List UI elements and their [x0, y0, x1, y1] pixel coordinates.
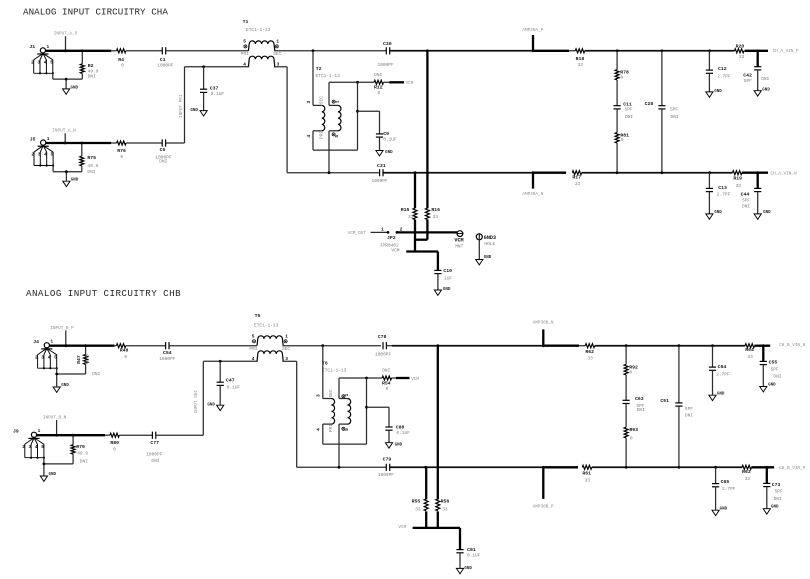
- resistor R62: [585, 344, 594, 348]
- connector J4: [33, 339, 58, 370]
- resistor R12: [374, 80, 383, 84]
- svg-text:R17: R17: [572, 175, 581, 181]
- wire T5 pin4: [203, 360, 257, 362]
- svg-text:R79: R79: [76, 444, 85, 450]
- svg-text:DNI: DNI: [151, 458, 159, 464]
- wire J4 ground tap: [56, 374, 58, 387]
- svg-text:SEC: SEC: [282, 346, 290, 352]
- resistor R76: [117, 141, 126, 145]
- svg-text:R62: R62: [585, 349, 594, 355]
- wire R63-out: [751, 466, 774, 468]
- svg-text:2.7PF: 2.7PF: [717, 73, 731, 79]
- svg-text:4: 4: [44, 59, 47, 65]
- capacitor C30: [385, 47, 387, 54]
- wire bus A N: [287, 172, 380, 174]
- capacitor C28: [661, 51, 663, 106]
- ground C73: [763, 506, 779, 514]
- resistor R4: [117, 49, 126, 53]
- svg-text:DNI: DNI: [761, 76, 769, 82]
- wire J5-R76: [46, 142, 111, 144]
- svg-text:ANALOG INPUT CIRCUITRY CHA: ANALOG INPUT CIRCUITRY CHA: [23, 7, 168, 18]
- svg-text:INPUT_B_N: INPUT_B_N: [43, 415, 67, 420]
- svg-text:1UF: 1UF: [444, 275, 452, 281]
- svg-text:R47: R47: [76, 355, 82, 364]
- svg-text:1: 1: [285, 334, 288, 340]
- ground C65: [712, 507, 728, 515]
- wire J5 shield rail: [52, 166, 54, 172]
- svg-text:R54: R54: [382, 380, 391, 386]
- resistor R48: [116, 344, 125, 348]
- jumper JP2: [387, 231, 390, 234]
- svg-text:4: 4: [44, 152, 47, 158]
- svg-text:C12: C12: [718, 66, 727, 72]
- capacitor C44: [757, 173, 759, 189]
- svg-text:0: 0: [386, 386, 389, 392]
- wire R80-C77: [119, 434, 152, 436]
- resistor R17: [572, 171, 581, 175]
- svg-text:1: 1: [50, 339, 53, 345]
- svg-text:33: 33: [587, 356, 593, 362]
- svg-text:0: 0: [378, 90, 381, 96]
- svg-text:3: 3: [38, 152, 41, 158]
- svg-text:3: 3: [316, 394, 322, 397]
- wire bus A bold seg: [533, 172, 566, 174]
- svg-text:SEC: SEC: [273, 51, 281, 57]
- svg-text:VCM: VCM: [411, 377, 419, 382]
- ground C64: [709, 392, 725, 400]
- svg-text:5: 5: [51, 152, 54, 158]
- capacitor C47: [219, 360, 222, 363]
- svg-text:C5: C5: [160, 147, 166, 153]
- svg-text:1000PF: 1000PF: [159, 356, 176, 362]
- svg-text:C42: C42: [743, 72, 752, 78]
- capacitor C65: [715, 467, 717, 483]
- svg-text:R12: R12: [374, 85, 383, 91]
- svg-text:R4: R4: [118, 57, 124, 63]
- wire J4-R48: [49, 345, 114, 347]
- svg-text:C78: C78: [378, 334, 387, 340]
- svg-text:J5: J5: [30, 136, 36, 142]
- svg-text:GND: GND: [763, 211, 771, 215]
- svg-text:2.7PF: 2.7PF: [716, 371, 730, 377]
- svg-text:4: 4: [48, 354, 51, 360]
- ground C81: [456, 567, 472, 574]
- svg-text:0: 0: [621, 74, 624, 80]
- wire J5 ground tap: [65, 172, 67, 182]
- svg-text:C64: C64: [718, 364, 727, 370]
- svg-text:C51: C51: [660, 398, 669, 404]
- wire bus B bold seg: [543, 466, 578, 468]
- connector J1: [29, 44, 54, 75]
- svg-text:1000PF: 1000PF: [146, 451, 163, 457]
- svg-text:R76: R76: [117, 148, 126, 154]
- resistor R61: [582, 465, 591, 469]
- svg-text:GND: GND: [762, 88, 770, 92]
- svg-text:DNI: DNI: [80, 459, 88, 465]
- svg-text:5: 5: [243, 39, 246, 45]
- svg-text:C31: C31: [377, 163, 386, 169]
- svg-text:C54: C54: [163, 350, 172, 356]
- svg-text:R48: R48: [120, 347, 129, 353]
- wire C77-T5pin4: [156, 434, 204, 436]
- svg-text:1000PF: 1000PF: [372, 178, 389, 184]
- ground C47: [207, 404, 223, 411]
- svg-text:J1: J1: [29, 44, 35, 50]
- wire AMP-R18: [533, 50, 569, 52]
- svg-text:33: 33: [585, 477, 591, 483]
- svg-text:33: 33: [408, 214, 414, 220]
- ground C55: [760, 384, 776, 392]
- wire C10 feed: [406, 250, 438, 252]
- ground C44: [754, 211, 771, 219]
- svg-text:C65: C65: [721, 479, 730, 485]
- capacitor C77: [151, 432, 153, 439]
- svg-text:INPUT_B_P: INPUT_B_P: [50, 326, 74, 331]
- svg-text:CH_A_VIN_P: CH_A_VIN_P: [773, 49, 799, 54]
- svg-text:R2: R2: [88, 63, 94, 69]
- svg-text:DNI: DNI: [382, 368, 390, 374]
- svg-text:ANALOG INPUT CIRCUITRY CHB: ANALOG INPUT CIRCUITRY CHB: [26, 288, 181, 299]
- svg-text:C9: C9: [383, 131, 389, 137]
- svg-text:1: 1: [47, 44, 50, 50]
- node VCM (R12): [384, 81, 390, 83]
- svg-text:C73: C73: [772, 482, 781, 488]
- svg-text:1: 1: [47, 136, 50, 142]
- svg-text:5PF: 5PF: [775, 489, 783, 495]
- svg-text:DNI: DNI: [685, 413, 693, 419]
- svg-text:49.9: 49.9: [77, 451, 88, 457]
- ground J1: [63, 86, 79, 94]
- svg-text:5PF: 5PF: [744, 78, 752, 84]
- transformer T1: [241, 19, 282, 67]
- svg-text:AMP30B_N: AMP30B_N: [533, 320, 554, 325]
- wire T2 top line: [329, 81, 374, 83]
- capacitor C11: [614, 105, 621, 107]
- svg-text:JP2: JP2: [387, 235, 396, 241]
- svg-text:DNI: DNI: [774, 496, 782, 502]
- ground C12: [706, 90, 722, 97]
- wire bus B P: [297, 466, 387, 468]
- svg-text:GND: GND: [385, 151, 393, 155]
- wire R48-C54: [126, 345, 166, 347]
- svg-text:R55: R55: [412, 499, 421, 505]
- svg-text:0: 0: [120, 154, 123, 160]
- transformer T6: [316, 346, 367, 468]
- svg-text:AMP30A_N: AMP30A_N: [522, 192, 543, 197]
- svg-text:VCM: VCM: [454, 238, 463, 244]
- capacitor C12: [708, 51, 710, 70]
- svg-text:C37: C37: [210, 86, 219, 92]
- wire C54-T5: [169, 345, 257, 347]
- svg-text:C1: C1: [160, 57, 166, 63]
- capacitor C51: [678, 346, 680, 403]
- svg-text:INPUT_A_P: INPUT_A_P: [54, 32, 78, 37]
- resistor R20: [735, 49, 744, 53]
- svg-text:0.1UF: 0.1UF: [211, 91, 225, 97]
- svg-text:GND3: GND3: [484, 235, 496, 241]
- capacitor C80: [365, 406, 368, 409]
- capacitor C13: [708, 173, 710, 189]
- wire C5-T1pin4: [166, 142, 185, 144]
- svg-text:3: 3: [29, 444, 32, 450]
- wire VCM rail: [397, 231, 457, 233]
- svg-text:1000PF: 1000PF: [378, 62, 395, 68]
- svg-text:ETC1-1-13: ETC1-1-13: [316, 73, 341, 79]
- svg-text:2.7PF: 2.7PF: [722, 486, 736, 492]
- svg-text:1: 1: [38, 428, 41, 434]
- connector J5: [30, 136, 55, 167]
- svg-text:33: 33: [433, 214, 439, 220]
- svg-text:DNI: DNI: [742, 204, 750, 210]
- svg-text:DNI: DNI: [671, 114, 679, 120]
- resistor R15: [414, 173, 416, 209]
- svg-text:C80: C80: [396, 424, 405, 430]
- svg-text:2: 2: [22, 444, 25, 450]
- wire J9 shield rail: [43, 458, 45, 464]
- svg-text:VCM: VCM: [406, 81, 414, 86]
- svg-text:GND: GND: [464, 567, 472, 571]
- wire R19-out: [742, 172, 768, 174]
- svg-text:3: 3: [41, 354, 44, 360]
- svg-text:33: 33: [415, 506, 421, 512]
- node AMP30A_N: [532, 173, 534, 189]
- svg-text:T1: T1: [243, 19, 249, 25]
- svg-text:0: 0: [630, 369, 633, 375]
- svg-text:33: 33: [747, 354, 753, 360]
- wire R64-out: [755, 345, 771, 347]
- svg-text:R16: R16: [431, 207, 440, 213]
- wire T1 pin3: [274, 66, 287, 68]
- svg-text:0.1UF: 0.1UF: [227, 385, 241, 391]
- svg-text:C10: C10: [443, 268, 452, 274]
- ground C9: [376, 151, 393, 156]
- wire R62-branches: [595, 345, 746, 347]
- wire J9-R80: [37, 434, 105, 436]
- svg-text:5PF: 5PF: [771, 366, 779, 372]
- svg-text:1: 1: [335, 100, 341, 103]
- terminal VCM: [457, 231, 463, 237]
- svg-text:DNI: DNI: [88, 74, 96, 80]
- svg-text:R15: R15: [401, 207, 410, 213]
- svg-text:R80: R80: [110, 440, 119, 446]
- svg-text:GND: GND: [395, 443, 403, 447]
- svg-text:CH_B_VIN_N: CH_B_VIN_N: [779, 343, 805, 348]
- svg-text:5: 5: [252, 334, 255, 340]
- svg-text:49.9: 49.9: [88, 68, 99, 74]
- transformer T2: [306, 51, 358, 173]
- svg-text:33: 33: [442, 506, 448, 512]
- wire input A P: [46, 50, 112, 52]
- svg-text:R18: R18: [576, 56, 585, 62]
- svg-text:R56: R56: [441, 499, 450, 505]
- capacitor C10: [434, 269, 441, 271]
- svg-text:0: 0: [121, 63, 124, 69]
- svg-text:C44: C44: [741, 191, 750, 197]
- capacitor C73: [766, 467, 768, 483]
- svg-text:PRI: PRI: [241, 51, 249, 57]
- ground J5: [63, 179, 79, 187]
- svg-text:INPUT PRI: INPUT PRI: [179, 94, 184, 118]
- capacitor C31: [379, 169, 381, 176]
- svg-text:AMP30B_P: AMP30B_P: [533, 504, 554, 509]
- svg-text:5: 5: [54, 354, 57, 360]
- resistor R79: [72, 434, 75, 437]
- resistor R54: [382, 376, 391, 380]
- svg-text:C79: C79: [383, 457, 392, 463]
- capacitor C81: [456, 549, 463, 551]
- wire T5 pin3: [282, 360, 296, 362]
- svg-text:GND: GND: [71, 179, 79, 183]
- svg-text:ETC1-1-13: ETC1-1-13: [246, 27, 271, 33]
- svg-text:33: 33: [739, 54, 745, 60]
- svg-text:VCM_OUT: VCM_OUT: [348, 231, 367, 236]
- node VCM (R54): [392, 377, 397, 379]
- wire R18-branches: [585, 50, 735, 52]
- ground GND3: [476, 256, 492, 265]
- svg-text:PRI: PRI: [319, 131, 325, 139]
- svg-text:0: 0: [113, 447, 116, 453]
- capacitor C42: [757, 51, 759, 67]
- svg-text:0.1UF: 0.1UF: [396, 430, 410, 436]
- capacitor C64: [712, 346, 714, 367]
- svg-text:DNI: DNI: [637, 407, 645, 413]
- svg-text:R61: R61: [582, 471, 591, 477]
- resistor R47: [84, 344, 87, 347]
- svg-text:VCM: VCM: [391, 248, 399, 254]
- wire T1-C30: [274, 50, 386, 52]
- resistor R55: [425, 467, 427, 499]
- svg-text:5PF: 5PF: [742, 198, 750, 204]
- connector J9: [13, 428, 45, 459]
- svg-text:3: 3: [306, 101, 312, 104]
- svg-text:GND: GND: [768, 384, 776, 388]
- svg-text:C63: C63: [635, 396, 644, 402]
- resistor R19: [733, 171, 742, 175]
- capacitor C55: [762, 346, 764, 362]
- wire J9 ground tap: [43, 464, 45, 476]
- resistor R80: [110, 433, 119, 437]
- svg-text:2: 2: [31, 59, 34, 65]
- svg-text:4: 4: [316, 428, 322, 431]
- svg-text:R19: R19: [733, 175, 742, 181]
- svg-text:C30: C30: [383, 41, 392, 47]
- svg-text:2: 2: [35, 354, 38, 360]
- resistor R16: [426, 51, 428, 208]
- wire R76-C5: [126, 142, 162, 144]
- ground C10: [434, 288, 451, 296]
- wire T6 right vertical: [366, 378, 368, 444]
- svg-text:5PF: 5PF: [685, 406, 693, 412]
- svg-text:DNI: DNI: [87, 169, 95, 175]
- svg-text:49.9: 49.9: [84, 354, 90, 365]
- svg-text:C55: C55: [769, 360, 778, 366]
- svg-text:PRI: PRI: [249, 346, 257, 352]
- svg-text:1000PF: 1000PF: [157, 62, 174, 68]
- svg-text:C81: C81: [467, 547, 476, 553]
- mounting hole GND3: [476, 234, 482, 240]
- svg-text:2: 2: [31, 152, 34, 158]
- svg-text:C47: C47: [226, 378, 235, 384]
- node AMP30B_P: [542, 467, 544, 499]
- capacitor C63: [623, 399, 630, 401]
- svg-text:GND: GND: [190, 109, 198, 113]
- svg-text:0.1UF: 0.1UF: [467, 553, 481, 559]
- svg-text:DNI: DNI: [773, 373, 781, 379]
- svg-text:DNI: DNI: [625, 114, 633, 120]
- svg-text:R75: R75: [87, 155, 96, 161]
- svg-text:49.9: 49.9: [87, 163, 98, 169]
- svg-text:AMP30A_P: AMP30A_P: [522, 28, 543, 33]
- wire R20-out: [745, 50, 769, 52]
- svg-text:5PF: 5PF: [625, 106, 633, 112]
- wire T1 pin4: [185, 66, 250, 68]
- capacitor C5: [161, 139, 163, 146]
- resistor R78: [616, 51, 618, 70]
- svg-text:GND: GND: [71, 86, 79, 90]
- svg-text:GND: GND: [443, 288, 451, 292]
- svg-text:GND: GND: [714, 90, 722, 94]
- wire J4 shield rail: [56, 368, 58, 374]
- ground J9: [40, 473, 56, 481]
- svg-text:33: 33: [745, 476, 751, 482]
- svg-text:R63: R63: [742, 469, 751, 475]
- svg-text:GND: GND: [771, 506, 779, 510]
- resistor R63: [742, 465, 751, 469]
- svg-text:T2: T2: [316, 66, 322, 72]
- wire J1 shield rail: [52, 73, 54, 79]
- svg-text:2.7PF: 2.7PF: [717, 192, 731, 198]
- svg-text:0.1UF: 0.1UF: [383, 136, 397, 142]
- resistor R92: [625, 346, 627, 365]
- svg-text:5: 5: [50, 59, 53, 65]
- svg-text:GND: GND: [61, 384, 69, 388]
- wire C30-R18: [390, 50, 533, 52]
- capacitor C78: [382, 342, 384, 349]
- svg-text:PRI: PRI: [328, 424, 334, 432]
- wire T2 right vertical: [357, 82, 359, 150]
- svg-text:INPUT SEC: INPUT SEC: [194, 390, 199, 414]
- svg-text:33: 33: [578, 62, 584, 68]
- wire R16 jog: [415, 239, 427, 241]
- svg-text:0: 0: [630, 436, 633, 442]
- ground C37: [190, 109, 207, 116]
- svg-text:1000PF: 1000PF: [375, 351, 392, 357]
- svg-text:MNT: MNT: [455, 244, 463, 250]
- ground C80: [385, 443, 402, 448]
- svg-text:1000PF: 1000PF: [378, 472, 395, 478]
- wire C78-R62: [386, 345, 392, 347]
- svg-text:CH_B_VIN_P: CH_B_VIN_P: [779, 466, 805, 471]
- capacitor C79: [385, 464, 387, 471]
- capacitor C1: [161, 47, 163, 54]
- resistor R75: [80, 142, 83, 145]
- svg-text:5PF: 5PF: [670, 106, 678, 112]
- ground C13: [706, 211, 722, 219]
- svg-text:4: 4: [306, 135, 312, 138]
- svg-text:R64: R64: [745, 347, 754, 353]
- svg-text:ETC1-1-13: ETC1-1-13: [322, 367, 347, 373]
- wire R17-branches: [582, 172, 733, 174]
- svg-text:5: 5: [334, 135, 340, 138]
- svg-text:5: 5: [344, 428, 350, 431]
- svg-text:GND: GND: [717, 392, 725, 396]
- svg-text:GND: GND: [720, 507, 728, 511]
- svg-text:SEC: SEC: [319, 96, 325, 104]
- svg-text:T5: T5: [255, 313, 261, 319]
- transformer T5: [249, 313, 290, 362]
- capacitor C54: [165, 342, 167, 349]
- svg-text:R93: R93: [629, 427, 638, 433]
